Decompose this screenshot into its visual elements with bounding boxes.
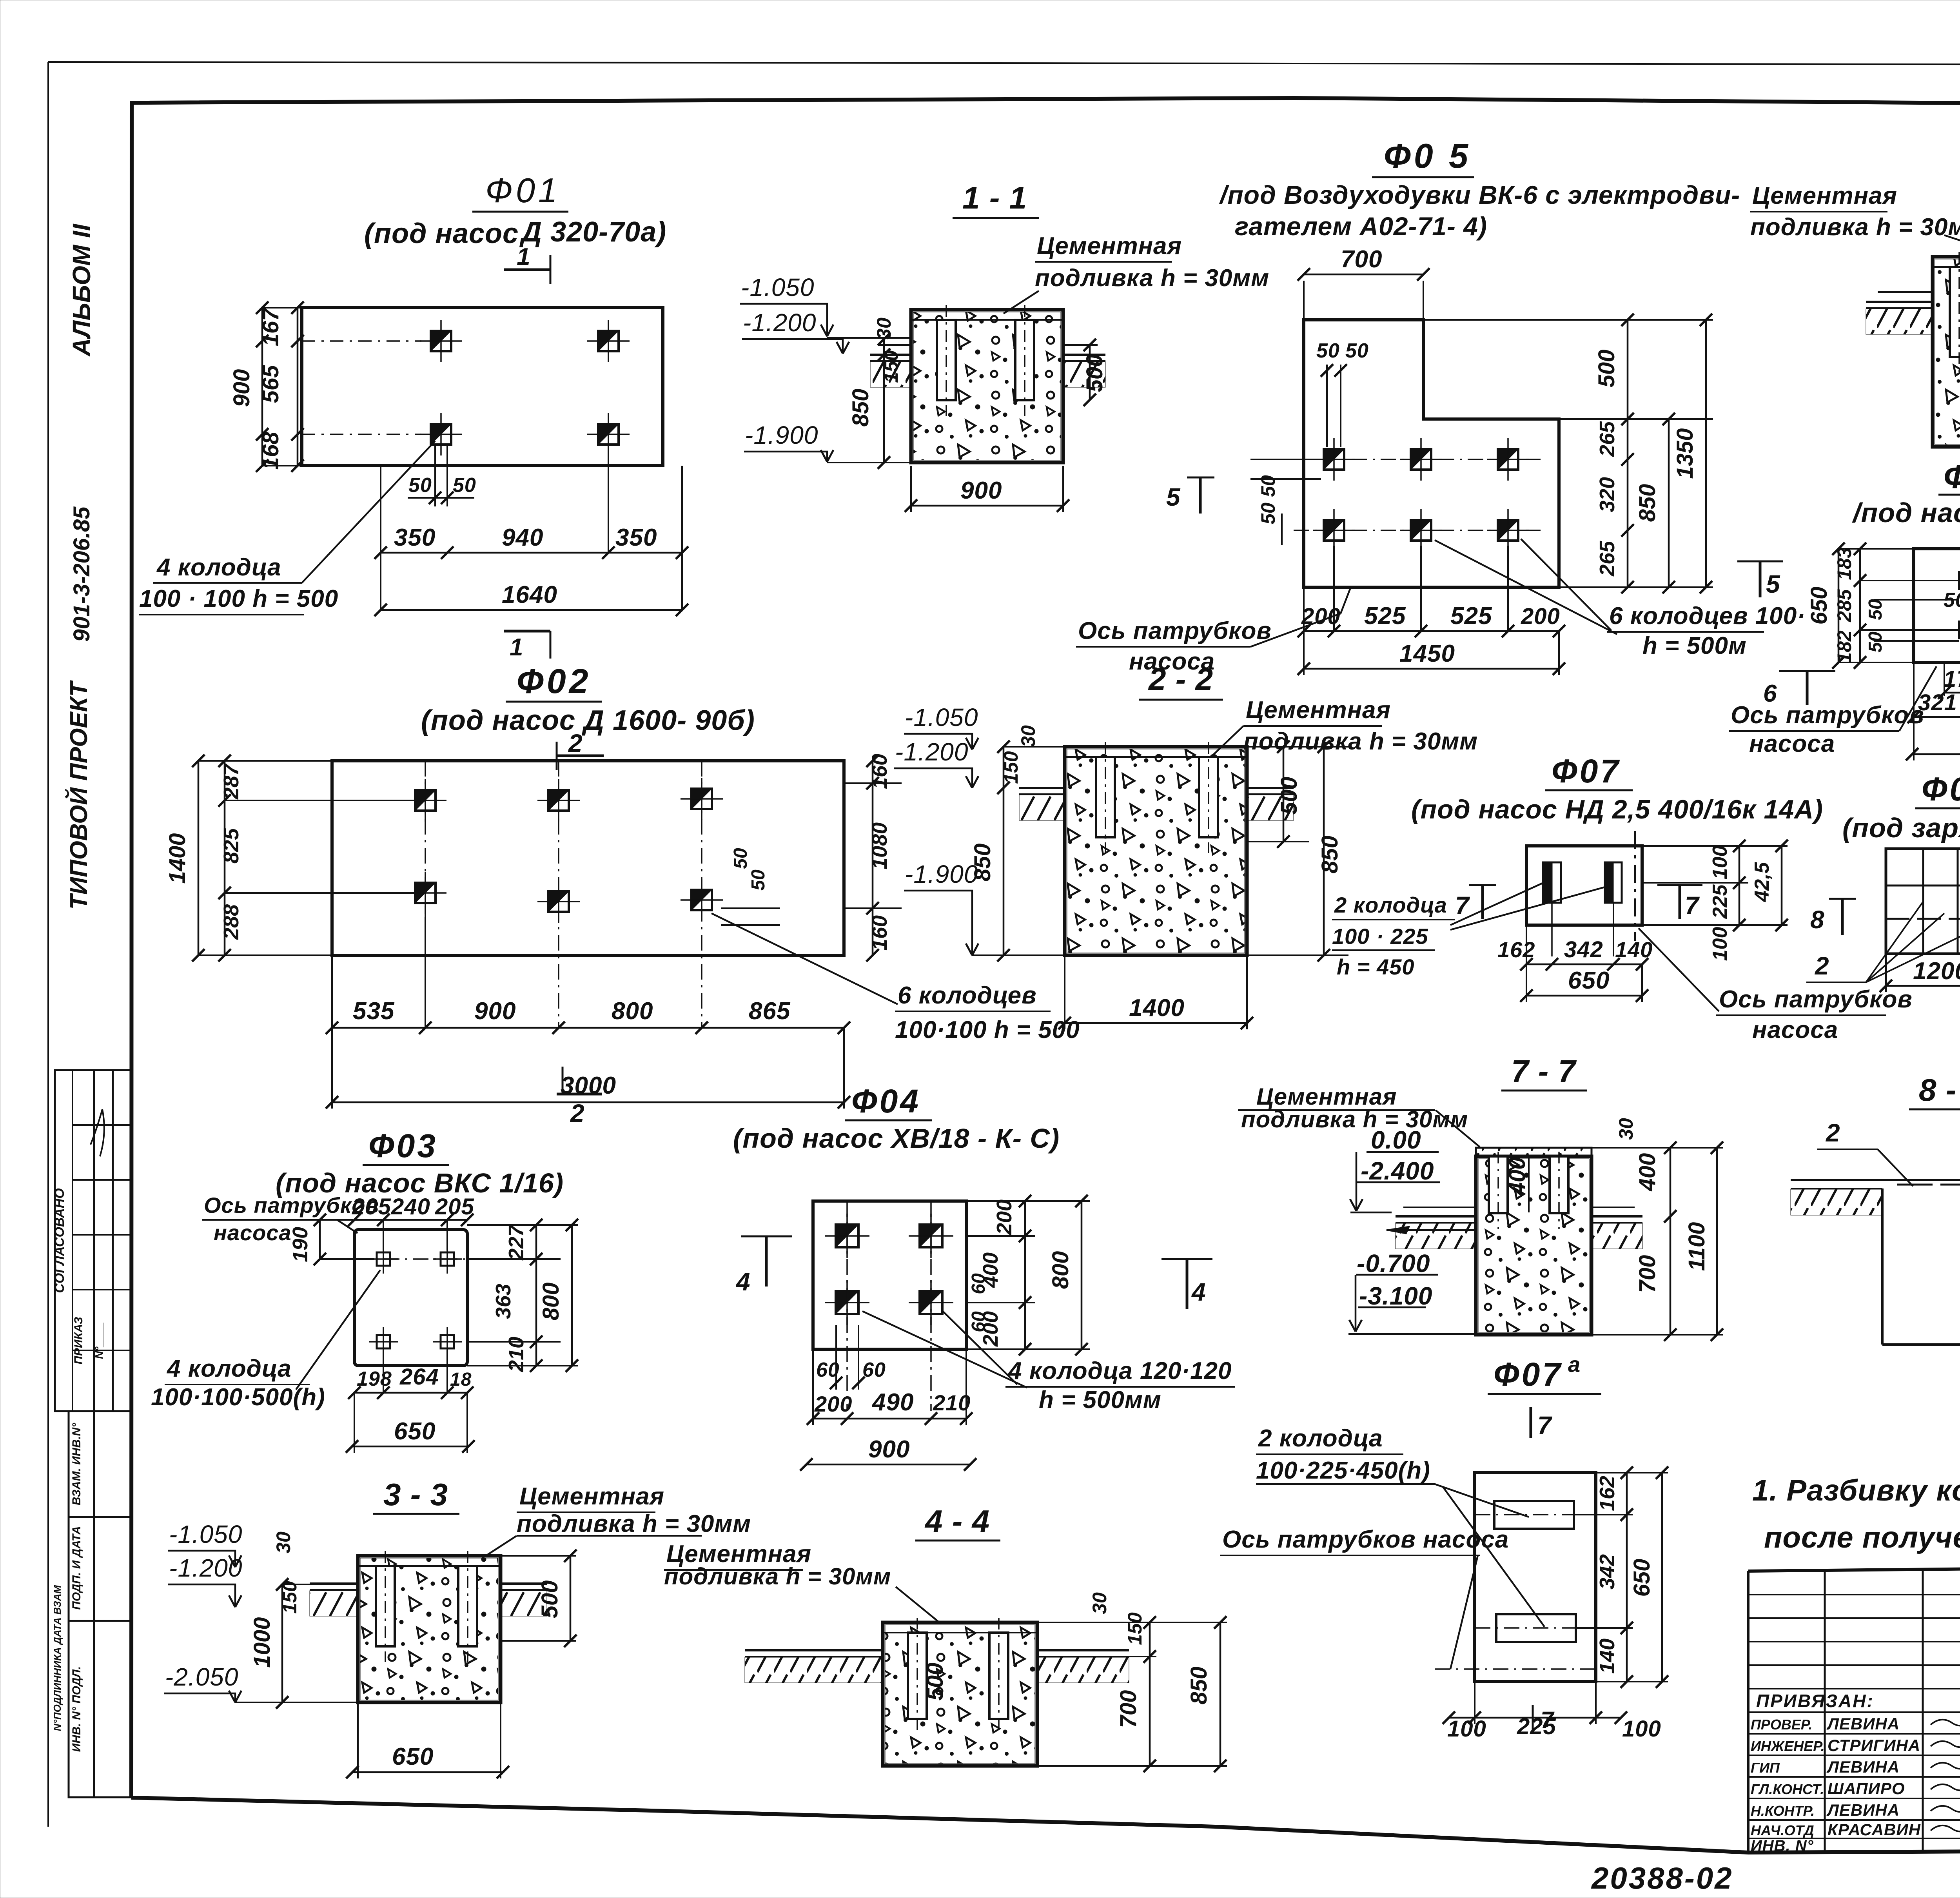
left margin vertical text 901-3-206.85	[69, 506, 94, 642]
svg-text:ТИПОВОЙ ПРОЕКТ: ТИПОВОЙ ПРОЕКТ	[65, 680, 93, 909]
subtitle (под насос ХВ/18-К-С)	[733, 1123, 1060, 1154]
plan Ф02 bottom dims 535 900 800 865 / 3000	[326, 917, 850, 1109]
section 1-1 ground lines	[870, 345, 1105, 387]
svg-text:(под зарядную камеру): (под зарядную камеру)	[1842, 813, 1960, 843]
svg-text:18: 18	[450, 1369, 472, 1390]
svg-text:850: 850	[848, 389, 873, 427]
svg-text:850: 850	[1186, 1667, 1212, 1705]
plan Ф04 section marks 4	[735, 1236, 1212, 1309]
svg-text:Ф08: Ф08	[1922, 771, 1960, 807]
svg-text:2 колодца: 2 колодца	[1258, 1425, 1383, 1452]
plan Ф05 left small dims 50 50	[1250, 459, 1325, 545]
plan Ф06 outline	[1914, 549, 1960, 662]
svg-text:901-3-206.85: 901-3-206.85	[69, 506, 94, 642]
plan Ф05 L-shaped outline	[1304, 320, 1559, 587]
svg-text:50: 50	[1865, 631, 1886, 653]
svg-text:-3.100: -3.100	[1359, 1282, 1432, 1310]
section 7-7 right dims 30 400 700 1100	[1592, 1118, 1723, 1341]
svg-text:0.00: 0.00	[1371, 1126, 1421, 1154]
svg-text:2: 2	[568, 729, 583, 757]
title Ф05	[1372, 136, 1474, 177]
svg-text:320: 320	[1595, 477, 1619, 512]
svg-text:30: 30	[1615, 1118, 1637, 1140]
section 3-3 concrete block	[358, 1551, 501, 1702]
svg-text:700: 700	[1341, 246, 1382, 273]
label Ось патрубков насоса (Ф07)	[1639, 928, 1913, 1043]
svg-text:после получения оборудования: после получения оборудования.	[1764, 1521, 1960, 1554]
section 5-5 concrete block	[1933, 252, 1960, 447]
svg-text:Цементная: Цементная	[519, 1483, 664, 1510]
svg-text:160: 160	[868, 915, 891, 951]
svg-text:-1.900: -1.900	[745, 421, 818, 449]
subtitle (под насос ВКС 1/16)	[276, 1168, 564, 1198]
svg-text:30: 30	[873, 318, 895, 339]
svg-text:насоса: насоса	[214, 1220, 292, 1245]
plan Ф05 bottom dims 200 525 525 200 / 1450	[1298, 546, 1565, 675]
svg-text:1450: 1450	[1399, 640, 1455, 667]
plan Ф05 right dims 500 265 320 265 850 1350	[1423, 314, 1713, 593]
note line 2	[1764, 1521, 1960, 1554]
svg-text:КРАСАВИН: КРАСАВИН	[1828, 1820, 1921, 1839]
svg-text:800: 800	[1048, 1251, 1073, 1289]
label Цементная подливка h=30мм (1-1)	[1004, 232, 1269, 314]
svg-text:ПРИКАЗ: ПРИКАЗ	[72, 1317, 85, 1364]
svg-text:140: 140	[1615, 937, 1653, 962]
svg-text:200: 200	[814, 1392, 852, 1416]
svg-text:150: 150	[1000, 751, 1022, 784]
title block	[1748, 1563, 1960, 1854]
svg-text:Ф07: Ф07	[1552, 753, 1621, 789]
svg-text:-0.700: -0.700	[1357, 1249, 1430, 1277]
plan Ф08 grid	[1886, 849, 1960, 954]
section 2-2 elevations	[894, 703, 978, 955]
svg-text:500: 500	[922, 1663, 948, 1701]
svg-text:285: 285	[1833, 589, 1855, 622]
plan Ф07 bottom dims 162 342 140 650	[1497, 925, 1653, 1002]
label 4 колодца 100х100 h=500	[139, 441, 435, 615]
plan Ф05 bolt wells (6)	[1294, 438, 1541, 552]
plan Ф05 section marks 5	[1166, 477, 1783, 598]
svg-text:865: 865	[749, 998, 791, 1025]
svg-text:(под насос ХВ/18 - К- С): (под насос ХВ/18 - К- С)	[733, 1123, 1060, 1154]
svg-text:/под насос ВВН- 0,75/: /под насос ВВН- 0,75/	[1852, 497, 1960, 528]
section mark 2 bottom	[557, 1067, 602, 1127]
plan Ф03 bolt wells (4 small)	[326, 1245, 497, 1356]
svg-text:-1.050: -1.050	[169, 1520, 242, 1548]
title Ф02	[506, 662, 602, 702]
section 2-2 left dims 150 850 160	[970, 725, 1065, 962]
svg-text:100 · 100 h = 500: 100 · 100 h = 500	[139, 585, 338, 612]
svg-text:342: 342	[1564, 937, 1603, 962]
svg-text:50: 50	[1316, 339, 1340, 362]
svg-text:100: 100	[1622, 1716, 1661, 1742]
svg-text:Д 320-70а): Д 320-70а)	[519, 216, 666, 248]
section mark 1 bottom	[504, 631, 550, 661]
plan Ф06 left dims 650 182 285 183	[1806, 543, 1959, 669]
svg-text:2 - 2: 2 - 2	[1148, 662, 1213, 697]
svg-text:7: 7	[1537, 1411, 1553, 1439]
svg-text:900: 900	[960, 477, 1002, 504]
section 3-3 ground lines	[310, 1584, 547, 1616]
svg-text:287: 287	[220, 763, 243, 800]
svg-text:Н.КОНТР.: Н.КОНТР.	[1751, 1803, 1815, 1819]
plan Ф07а outline	[1475, 1473, 1596, 1682]
svg-text:(под насос: (под насос	[364, 218, 519, 249]
svg-text:50: 50	[730, 848, 751, 869]
section 1-1 elevation -1.900	[744, 421, 911, 463]
svg-text:800: 800	[538, 1283, 564, 1321]
section 8-8 label 2	[1817, 1119, 1913, 1186]
title Ф01	[472, 171, 568, 212]
svg-text:400: 400	[1635, 1153, 1660, 1192]
svg-text:-1.200: -1.200	[743, 308, 816, 337]
svg-text:1350: 1350	[1672, 428, 1698, 479]
svg-text:2 колодца: 2 колодца	[1334, 893, 1447, 917]
svg-text:Ось патрубков: Ось патрубков	[1078, 617, 1272, 644]
svg-text:60: 60	[968, 1311, 989, 1332]
svg-text:8 - 8: 8 - 8	[1919, 1072, 1960, 1107]
svg-text:1. Разбивку колодцев под бо: 1. Разбивку колодцев под болты производи…	[1752, 1474, 1960, 1507]
svg-text:/под Воздуходувки ВК-6 с э: /под Воздуходувки ВК-6 с электродви-	[1219, 180, 1740, 209]
section 4-4 inner dim 500	[922, 1663, 948, 1701]
svg-text:ШАПИРО: ШАПИРО	[1828, 1779, 1905, 1798]
svg-text:100: 100	[1709, 846, 1731, 880]
plan Ф02 right dims 160 1080 160	[844, 754, 902, 962]
svg-text:150: 150	[1124, 1612, 1146, 1645]
section 2-2 right dims 500 850	[1247, 740, 1348, 962]
plan Ф01 bottom dimension 1640	[374, 581, 688, 616]
svg-text:1100: 1100	[1684, 1222, 1710, 1271]
svg-text:насоса: насоса	[1752, 1016, 1838, 1043]
left margin approval stamp table	[51, 1070, 131, 1797]
svg-text:190: 190	[289, 1227, 312, 1262]
section 1-1 left dims 850/150/30	[848, 318, 902, 469]
plan Ф02 left dims 1400 287 825 288	[165, 755, 416, 962]
svg-text:700: 700	[1116, 1690, 1141, 1728]
svg-text:900: 900	[474, 998, 516, 1025]
svg-text:4: 4	[735, 1268, 751, 1296]
svg-text:200: 200	[1521, 604, 1560, 629]
label 6 колодцев 100х100 h=500 (Ф02)	[711, 913, 1080, 1043]
svg-text:100 · 225: 100 · 225	[1332, 924, 1428, 949]
svg-text:1080: 1080	[868, 822, 891, 869]
title 3-3	[373, 1477, 459, 1514]
svg-text:100: 100	[1447, 1716, 1486, 1742]
plan Ф03 bottom dims 198 264 18 / 650	[346, 1350, 475, 1453]
svg-text:-1.050: -1.050	[741, 273, 814, 301]
svg-text:-2.400: -2.400	[1361, 1157, 1434, 1185]
subtitle (под насос ВВН-0,75)	[1852, 497, 1960, 528]
subtitle (под насос Д1600-90б)	[421, 705, 755, 736]
svg-text:1000: 1000	[249, 1617, 275, 1668]
title 8-8	[1909, 1072, 1960, 1109]
svg-text:800: 800	[612, 998, 653, 1025]
plan Ф08 section marks 8	[1810, 899, 1960, 938]
svg-text:АЛЬБОМ II: АЛЬБОМ II	[67, 223, 96, 357]
note line 1	[1752, 1474, 1960, 1507]
plan Ф01 bolt wells	[302, 320, 630, 455]
svg-text:240: 240	[391, 1194, 430, 1219]
svg-text:50: 50	[1257, 503, 1279, 524]
svg-text:350: 350	[394, 524, 436, 551]
label Ось патрубков насоса (Ф07а)	[1220, 1526, 1509, 1669]
svg-text:2: 2	[1815, 952, 1829, 980]
subtitle (под зарядную камеру)	[1842, 813, 1960, 843]
section 3-3 right dim 500	[501, 1550, 577, 1647]
plan Ф05 small dims 50 50 top	[1316, 339, 1369, 447]
section 7-7 elevations -0.700 -3.100	[1348, 1249, 1476, 1334]
svg-text:7 - 7: 7 - 7	[1511, 1054, 1577, 1089]
svg-text:60: 60	[968, 1273, 989, 1294]
title 2-2	[1139, 662, 1223, 700]
svg-text:4 колодца: 4 колодца	[156, 554, 281, 581]
svg-text:50: 50	[748, 869, 769, 891]
svg-text:4 колодца: 4 колодца	[166, 1355, 292, 1382]
plan Ф08 leader 2	[1806, 902, 1960, 982]
section 7-7 inner dim 400	[1504, 1156, 1530, 1212]
svg-text:1 - 1: 1 - 1	[962, 180, 1027, 215]
svg-text:650: 650	[394, 1418, 436, 1445]
svg-text:Ось патрубков: Ось патрубков	[1731, 702, 1924, 729]
svg-text:подливка h = 30мм.: подливка h = 30мм.	[1750, 214, 1960, 241]
title Ф07	[1545, 753, 1633, 790]
label Ось патрубков насоса (Ф03)	[202, 1193, 379, 1245]
svg-text:264: 264	[399, 1364, 439, 1390]
svg-text:h = 500мм: h = 500мм	[1039, 1386, 1161, 1414]
svg-text:-2.050: -2.050	[165, 1663, 238, 1691]
svg-text:182: 182	[1833, 630, 1855, 663]
svg-text:200: 200	[993, 1199, 1016, 1235]
svg-text:198: 198	[357, 1368, 392, 1390]
svg-text:2: 2	[570, 1099, 585, 1127]
svg-text:700: 700	[1635, 1255, 1660, 1293]
svg-text:(под насос НД 2,5 400/16к: (под насос НД 2,5 400/16к 14А)	[1411, 795, 1823, 824]
svg-text:265: 265	[1595, 421, 1619, 457]
svg-text:60: 60	[862, 1359, 886, 1381]
svg-text:ИНЖЕНЕР.: ИНЖЕНЕР.	[1751, 1738, 1825, 1754]
svg-text:1: 1	[517, 243, 530, 270]
title Ф07а	[1488, 1352, 1601, 1394]
plan Ф04 right dims 200 400 200 800	[966, 1195, 1090, 1355]
svg-text:227: 227	[505, 1224, 528, 1261]
svg-text:5: 5	[1166, 483, 1181, 511]
svg-text:4: 4	[1191, 1278, 1206, 1306]
svg-text:265: 265	[1595, 541, 1619, 577]
svg-text:42,5: 42,5	[1751, 862, 1773, 902]
plan Ф02 bolt wells (6)	[404, 761, 723, 1027]
svg-text:535: 535	[353, 998, 395, 1025]
title Ф04	[845, 1083, 932, 1120]
section 1-1 concrete block	[911, 305, 1063, 463]
svg-text:100·100·500(h): 100·100·500(h)	[151, 1384, 325, 1411]
svg-text:4 - 4: 4 - 4	[924, 1504, 990, 1539]
plan Ф02 outline	[332, 761, 844, 955]
section 3-3 elevations	[164, 1520, 358, 1702]
svg-text:168: 168	[258, 432, 283, 470]
svg-text:-1.200: -1.200	[895, 738, 968, 766]
plan Ф01 small 50/50 dimensions	[408, 445, 476, 506]
svg-text:490: 490	[871, 1389, 914, 1416]
svg-text:ИНВ. N° ПОДЛ.: ИНВ. N° ПОДЛ.	[70, 1666, 83, 1752]
svg-text:400: 400	[1504, 1157, 1530, 1196]
svg-text:5: 5	[1766, 570, 1780, 598]
svg-text:-1.050: -1.050	[905, 703, 978, 731]
section 1-1 right dim 500	[1082, 339, 1107, 406]
section 8-8 ground and pit	[1791, 1180, 1960, 1345]
section 1-1 elevation -1.200	[742, 308, 849, 354]
plan Ф07 outline	[1526, 831, 1642, 941]
label Цементная подливка (5-5)	[1750, 182, 1960, 259]
svg-text:100·100 h = 500: 100·100 h = 500	[895, 1016, 1080, 1043]
svg-text:ЛЕВИНА: ЛЕВИНА	[1826, 1801, 1900, 1819]
label Ось патрубков насоса (Ф05)	[1076, 588, 1350, 675]
section mark 1 top	[504, 243, 550, 284]
section 4-4 dims right 30 150 700 850	[1037, 1592, 1227, 1772]
svg-text:подливка h = 30мм: подливка h = 30мм	[1035, 265, 1269, 292]
svg-text:(под насос Д 1600- 90б): (под насос Д 1600- 90б)	[421, 705, 755, 736]
plan Ф04 outline	[813, 1201, 966, 1349]
svg-text:2: 2	[1826, 1119, 1840, 1147]
section 3-3 bottom dim 650	[346, 1702, 509, 1778]
svg-text:850: 850	[970, 844, 995, 882]
svg-text:500: 500	[537, 1580, 563, 1619]
svg-text:-1.900: -1.900	[905, 860, 978, 888]
svg-text:500: 500	[1594, 350, 1619, 388]
plan Ф03 top dims 205 240 205	[348, 1194, 474, 1250]
svg-text:N°____: N°____	[93, 1322, 105, 1359]
label 4 колодца 100х100х500(h) (Ф03)	[151, 1270, 380, 1411]
svg-text:167: 167	[258, 307, 283, 347]
svg-text:50: 50	[453, 474, 476, 497]
svg-text:30: 30	[1017, 725, 1039, 747]
svg-text:Цементная: Цементная	[1246, 697, 1391, 724]
plan Ф04 small dims 60 60	[816, 1273, 989, 1390]
svg-text:140: 140	[1595, 1639, 1619, 1674]
svg-text:подливка h = 30мм: подливка h = 30мм	[664, 1563, 891, 1590]
svg-text:Цементная: Цементная	[1037, 232, 1182, 259]
svg-text:6 колодцев: 6 колодцев	[898, 982, 1037, 1009]
title Ф08	[1915, 771, 1960, 808]
label Ось патрубков насоса (Ф06)	[1729, 666, 1936, 757]
svg-text:7: 7	[1685, 891, 1700, 920]
section 1-1 bottom dim 900	[905, 466, 1069, 512]
svg-text:162: 162	[1595, 1476, 1619, 1511]
plan Ф03 right dims 227 363 210 800	[467, 1219, 578, 1372]
section 1-1 elevation -1.050	[740, 273, 911, 338]
svg-text:ЛЕВИНА: ЛЕВИНА	[1826, 1758, 1900, 1776]
section 7-7 elevations 0.00 -2.400	[1350, 1126, 1476, 1234]
svg-text:Ф0 5: Ф0 5	[1384, 136, 1471, 175]
plan Ф02 small dims 50 50 (col3)	[721, 848, 780, 925]
svg-text:150: 150	[279, 1581, 301, 1614]
plan Ф06 bottom dims 170 321 369 210 900	[1906, 662, 1960, 760]
section 2-2 concrete block	[1065, 742, 1247, 955]
svg-text:162: 162	[1497, 937, 1535, 962]
title 1-1	[953, 180, 1039, 218]
svg-text:подливка h = 30мм: подливка h = 30мм	[1241, 1106, 1468, 1132]
svg-text:Ось патрубков насоса: Ось патрубков насоса	[1222, 1526, 1509, 1553]
section 5-5 ground lines	[1866, 292, 1960, 334]
svg-text:100: 100	[1709, 927, 1731, 961]
section 2-2 ground lines	[1019, 788, 1294, 820]
plan Ф05 top dim 700	[1298, 246, 1430, 320]
section 7-7 ground lines	[1396, 1207, 1642, 1249]
svg-text:565: 565	[258, 365, 283, 403]
svg-text:650: 650	[1629, 1559, 1655, 1597]
svg-text:525: 525	[1364, 602, 1406, 630]
svg-text:30: 30	[272, 1531, 294, 1553]
label 6 колодцев 100х100 h=500мм (Ф05)	[1435, 539, 1806, 659]
plan Ф07а right dims 162 342 140 650	[1574, 1466, 1668, 1688]
svg-text:N°ПОДЛИННИКА ДАТА ВЗАМ: N°ПОДЛИННИКА ДАТА ВЗАМ	[51, 1584, 63, 1731]
label Цементная подливка (7-7)	[1238, 1083, 1480, 1147]
svg-text:Ф07: Ф07	[1494, 1356, 1563, 1393]
label 2 колодца 100х225 h=450 (Ф07)	[1332, 881, 1609, 979]
svg-text:50: 50	[1345, 339, 1369, 362]
label 2 колодца 100х225х450(h) (Ф07а)	[1256, 1425, 1544, 1627]
svg-text:Цементная: Цементная	[1256, 1083, 1397, 1110]
plan Ф07 slot wells (2)	[1543, 862, 1622, 956]
svg-text:850: 850	[1635, 484, 1660, 522]
svg-text:гателем А02-71- 4): гателем А02-71- 4)	[1235, 212, 1487, 241]
title Ф06	[1938, 458, 1960, 495]
label Цементная подливка (2-2)	[1209, 697, 1478, 758]
plan Ф06 small dims 50 50	[1865, 586, 1960, 653]
svg-text:350: 350	[615, 524, 657, 551]
plan Ф07 section marks 7	[1455, 885, 1702, 920]
title Ф03	[363, 1127, 449, 1165]
svg-text:подливка h = 30мм: подливка h = 30мм	[517, 1510, 751, 1537]
section 4-4 ground lines	[745, 1650, 1129, 1683]
svg-text:100·225·450(h): 100·225·450(h)	[1256, 1457, 1430, 1484]
section mark 2 top	[557, 729, 604, 770]
section 4-4 concrete block	[883, 1618, 1037, 1766]
section mark 7 top (Ф07а)	[1531, 1407, 1553, 1439]
svg-text:225: 225	[1709, 884, 1731, 919]
svg-text:342: 342	[1595, 1554, 1619, 1590]
subtitle (под воздуходувки ВК-6 ...)	[1219, 180, 1740, 241]
svg-text:205: 205	[435, 1194, 474, 1219]
svg-text:Ф03: Ф03	[368, 1127, 438, 1164]
svg-text:ГЛ.КОНСТ.: ГЛ.КОНСТ.	[1751, 1781, 1824, 1797]
svg-text:насоса: насоса	[1749, 730, 1835, 757]
plan Ф03 outline	[354, 1230, 467, 1366]
svg-text:500: 500	[1276, 777, 1302, 815]
svg-text:ПОДП. И ДАТА: ПОДП. И ДАТА	[70, 1526, 83, 1610]
svg-text:900: 900	[868, 1436, 910, 1463]
svg-text:Ф04: Ф04	[851, 1083, 921, 1120]
svg-text:210: 210	[933, 1390, 971, 1415]
svg-text:ПРИВЯЗАН:: ПРИВЯЗАН:	[1756, 1691, 1874, 1711]
svg-text:НАЧ.ОТД: НАЧ.ОТД	[1751, 1822, 1814, 1838]
svg-text:288: 288	[220, 904, 243, 940]
left margin vertical text ТИПОВОЙ ПРОЕКТ	[65, 680, 93, 909]
svg-text:650: 650	[392, 1743, 434, 1770]
left margin vertical text АЛЬБОМ II	[67, 223, 96, 357]
svg-text:7: 7	[1541, 1707, 1555, 1733]
svg-text:ПРОВЕР.: ПРОВЕР.	[1751, 1717, 1812, 1733]
label Цементная подливка (4-4)	[664, 1541, 941, 1624]
svg-text:h = 450: h = 450	[1337, 954, 1414, 979]
svg-text:ВЗАМ. ИНВ.N°: ВЗАМ. ИНВ.N°	[70, 1423, 83, 1505]
svg-text:СОГЛАСОВАНО: СОГЛАСОВАНО	[52, 1188, 67, 1293]
svg-text:-1.200: -1.200	[169, 1554, 242, 1582]
section 7-7 concrete block	[1476, 1148, 1592, 1335]
svg-text:6 колодцев 100·: 6 колодцев 100·	[1609, 602, 1806, 630]
svg-text:900: 900	[229, 369, 254, 407]
title 4-4	[915, 1504, 1000, 1541]
plan Ф07а slot wells (2 horizontal)	[1435, 1501, 1607, 1669]
